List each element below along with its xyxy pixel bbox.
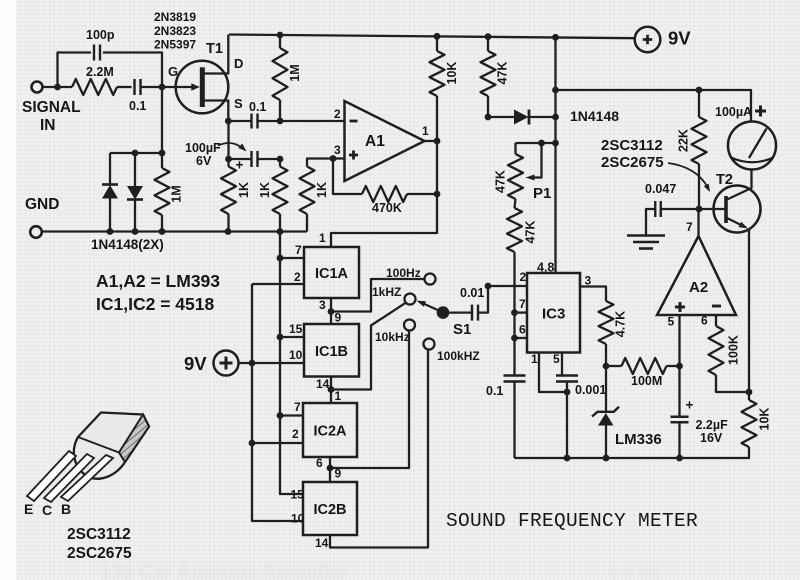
wire A2 pin5 bbox=[678, 315, 680, 366]
svg-text:1: 1 bbox=[531, 352, 538, 366]
svg-text:139 Car Antenna Amplifier: 139 Car Antenna Amplifier bbox=[100, 561, 349, 580]
svg-text:1K: 1K bbox=[237, 182, 251, 198]
wire 9V top rail bbox=[229, 35, 635, 39]
node S1k bbox=[225, 118, 232, 125]
svg-text:2.2M: 2.2M bbox=[86, 65, 114, 79]
T1 drain wire bbox=[205, 35, 229, 74]
resistor 10K bbox=[436, 36, 438, 51]
node diode anode bbox=[485, 114, 492, 121]
IC IC3 bbox=[527, 273, 580, 353]
wire enable vertical bbox=[252, 284, 303, 521]
svg-text:2SC2675: 2SC2675 bbox=[601, 154, 664, 171]
svg-text:0.01: 0.01 bbox=[460, 286, 484, 300]
wire A1 pin2 bbox=[280, 120, 345, 122]
svg-text:0-0 6-0: 0-0 6-0 bbox=[610, 565, 661, 580]
svg-text:10kHz: 10kHz bbox=[375, 330, 410, 344]
terminal 100kHZ bbox=[424, 339, 435, 350]
node emitter 10K bbox=[746, 389, 753, 396]
svg-text:9V: 9V bbox=[184, 353, 207, 374]
node IC3 pin7 bbox=[511, 309, 518, 316]
svg-text:0.047: 0.047 bbox=[645, 182, 676, 196]
meter needle bbox=[749, 129, 767, 159]
capacitor 100uF 6V bbox=[250, 151, 252, 167]
wire 10kHz bbox=[330, 331, 409, 469]
svg-text:14: 14 bbox=[316, 377, 330, 391]
svg-text:2N5397: 2N5397 bbox=[154, 38, 196, 52]
IC IC2B bbox=[303, 482, 357, 535]
svg-text:1N4148(2X): 1N4148(2X) bbox=[91, 237, 164, 252]
wire S down bbox=[227, 121, 229, 167]
battery 9V left bbox=[214, 351, 239, 376]
T1 gate wire bbox=[162, 86, 193, 88]
svg-text:+: + bbox=[686, 398, 694, 413]
T1 source wire bbox=[205, 101, 229, 122]
node gnd 1K b bbox=[277, 228, 284, 235]
meter 100uA bbox=[728, 122, 776, 170]
wire IC3 pin1 bbox=[539, 353, 564, 393]
wire C1 to node G bbox=[141, 86, 163, 88]
wire A1 out down bbox=[331, 141, 437, 247]
wire 2.2M to C1 bbox=[117, 86, 132, 88]
svg-text:7: 7 bbox=[519, 297, 526, 311]
node 22K top bbox=[696, 87, 703, 94]
node IC3 pin2 bbox=[485, 283, 492, 290]
wire IC3 pin6 bbox=[515, 337, 528, 339]
svg-text:IC1B: IC1B bbox=[315, 344, 348, 360]
node rail right bbox=[552, 34, 559, 41]
node A1 out bbox=[434, 138, 441, 145]
resistor 1K a bbox=[221, 167, 236, 215]
wire 0.01 up bbox=[478, 286, 488, 313]
svg-text:2SC3112: 2SC3112 bbox=[67, 526, 131, 543]
resistor 1K c bbox=[306, 214, 308, 232]
diode D3 1N4148 bbox=[488, 116, 514, 118]
node 100uF right bbox=[277, 156, 284, 163]
ground symbol bbox=[646, 209, 655, 236]
svg-text:14: 14 bbox=[315, 536, 329, 550]
node IC1B pin14 bbox=[328, 386, 335, 393]
node gnd 0.001 bbox=[564, 455, 571, 462]
node A2 pin5 100M bbox=[676, 363, 683, 370]
svg-text:3: 3 bbox=[319, 298, 326, 312]
svg-text:1: 1 bbox=[335, 389, 342, 403]
node A1 pin3 bbox=[330, 155, 337, 162]
resistor 22K bbox=[698, 90, 700, 117]
node junction input bbox=[54, 84, 61, 91]
node G branch bbox=[159, 150, 166, 157]
node IC2A pin6 bbox=[327, 465, 334, 472]
wire IC3 pin2 bbox=[488, 285, 527, 287]
terminal 10kHz bbox=[404, 320, 415, 331]
wire IC3 pin5 bbox=[561, 353, 563, 376]
svg-text:2: 2 bbox=[292, 427, 299, 441]
node 470K right bbox=[434, 191, 441, 198]
resistor 1M drain bbox=[277, 32, 284, 39]
svg-text:1K: 1K bbox=[315, 182, 329, 198]
svg-text:100p: 100p bbox=[86, 28, 115, 42]
svg-text:A1: A1 bbox=[365, 133, 385, 150]
svg-text:7: 7 bbox=[686, 220, 693, 234]
resistor 100M bbox=[606, 365, 622, 367]
node 0.001 bottom bbox=[564, 389, 571, 396]
wire IC3 pin7 bbox=[515, 311, 528, 313]
svg-text:E: E bbox=[24, 501, 33, 517]
resistor 2.2M bbox=[72, 79, 117, 95]
svg-text:D: D bbox=[234, 56, 243, 71]
node gnd LM336 bbox=[603, 455, 610, 462]
svg-text:T1: T1 bbox=[206, 41, 223, 57]
svg-text:6V: 6V bbox=[196, 154, 212, 168]
node IC1A pin7 bbox=[277, 255, 284, 262]
node gnd 1K a bbox=[225, 228, 232, 235]
svg-text:1: 1 bbox=[319, 231, 326, 245]
arrow 100uF callout bbox=[218, 143, 242, 148]
resistor 470K feedback bbox=[333, 159, 362, 195]
svg-text:1K: 1K bbox=[258, 182, 272, 198]
resistor 1M input bbox=[161, 153, 163, 168]
wire IC1B pin14 to IC2A pin1 bbox=[330, 377, 332, 404]
svg-text:10: 10 bbox=[289, 348, 303, 362]
capacitor 0.047 bbox=[654, 201, 656, 217]
svg-text:2.2µF: 2.2µF bbox=[696, 418, 729, 432]
wire IC1A pin7 bbox=[280, 257, 304, 259]
svg-text:P1: P1 bbox=[533, 185, 551, 202]
wire IC1B pin10 9V bbox=[239, 362, 305, 364]
svg-text:2SC2675: 2SC2675 bbox=[67, 545, 132, 562]
svg-text:5: 5 bbox=[553, 352, 560, 366]
zener LM336 bbox=[605, 366, 607, 412]
svg-text:10: 10 bbox=[291, 512, 305, 526]
wire 0.1 down bbox=[513, 382, 515, 459]
svg-text:2: 2 bbox=[294, 270, 301, 284]
svg-text:6: 6 bbox=[519, 323, 526, 337]
capacitor 100p bbox=[93, 45, 95, 61]
svg-text:IC2B: IC2B bbox=[313, 502, 346, 518]
svg-text:1kHZ: 1kHZ bbox=[372, 285, 401, 299]
TO-92 leads bbox=[27, 451, 76, 501]
capacitor 0.1 input bbox=[133, 79, 135, 95]
wire s cap bbox=[229, 120, 252, 122]
svg-text:1M: 1M bbox=[288, 64, 302, 81]
svg-text:100µF: 100µF bbox=[185, 141, 221, 155]
wire 100uF leads bbox=[229, 158, 252, 160]
capacitor 0.001 bbox=[556, 374, 578, 376]
capacitor 0.1 timing bbox=[504, 374, 526, 376]
resistor 1K b bbox=[279, 159, 281, 167]
terminal GND bbox=[30, 226, 42, 238]
capacitor 2.2uF 16V bbox=[678, 366, 680, 417]
svg-text:B: B bbox=[61, 501, 71, 517]
svg-text:0.1: 0.1 bbox=[486, 384, 503, 398]
wire A2 out bbox=[697, 209, 699, 236]
svg-text:15: 15 bbox=[291, 488, 305, 502]
battery 9V right bbox=[635, 27, 661, 53]
node IC2A pin7 bbox=[277, 412, 284, 419]
svg-text:47K: 47K bbox=[524, 221, 538, 244]
wire 47K down bbox=[513, 252, 515, 376]
node rail 10K bbox=[434, 33, 441, 40]
svg-text:C: C bbox=[42, 502, 52, 518]
svg-text:IC1A: IC1A bbox=[315, 266, 349, 282]
svg-text:3: 3 bbox=[585, 274, 592, 288]
wire 100p branch bbox=[58, 53, 92, 88]
resistor 4.7K bbox=[599, 301, 614, 344]
wire branch to meter bbox=[556, 90, 752, 122]
node T2 base bbox=[696, 206, 703, 213]
node gnd d1 bbox=[107, 228, 114, 235]
node diode2 top bbox=[132, 150, 139, 157]
svg-text:9: 9 bbox=[335, 467, 342, 481]
svg-text:IC3: IC3 bbox=[542, 306, 565, 323]
svg-text:1M: 1M bbox=[170, 185, 184, 202]
svg-text:100µA: 100µA bbox=[715, 105, 752, 119]
wire A1 pin3 bbox=[333, 157, 345, 159]
node G bbox=[159, 84, 166, 91]
wire IC3 pin3 bbox=[580, 287, 606, 302]
svg-text:IC1,IC2 = 4518: IC1,IC2 = 4518 bbox=[96, 294, 214, 314]
svg-text:7: 7 bbox=[294, 400, 301, 414]
node P1 supply bbox=[552, 140, 559, 147]
transistor T2 bbox=[714, 186, 761, 233]
terminal 1kHZ bbox=[405, 294, 416, 305]
svg-text:2: 2 bbox=[520, 270, 527, 284]
node gnd 1M bbox=[159, 228, 166, 235]
svg-text:0.1: 0.1 bbox=[129, 99, 146, 113]
svg-text:GND: GND bbox=[25, 196, 59, 213]
node IC1B pin15 bbox=[277, 334, 284, 341]
svg-text:22K: 22K bbox=[677, 129, 691, 152]
IC IC1B bbox=[304, 324, 359, 377]
wire IC1A pin3 to IC1B pin9 bbox=[330, 298, 332, 324]
op-amp A2 bbox=[657, 236, 736, 315]
node diode cathode bbox=[552, 114, 559, 121]
svg-text:IC2A: IC2A bbox=[313, 424, 347, 440]
node IC1A pin3 bbox=[328, 308, 335, 315]
terminal SIGNAL IN bbox=[32, 82, 43, 93]
svg-text:A1,A2 = LM393: A1,A2 = LM393 bbox=[96, 271, 220, 291]
svg-text:6: 6 bbox=[316, 456, 323, 470]
node gnd d2 bbox=[132, 228, 139, 235]
svg-text:100kHZ: 100kHZ bbox=[437, 349, 480, 363]
svg-text:470K: 470K bbox=[372, 201, 402, 215]
node P1 wiper tie bbox=[538, 140, 545, 147]
potentiometer P1 47K bbox=[508, 154, 523, 199]
wire diode branch top bbox=[110, 152, 162, 154]
wire 100Hz bbox=[331, 279, 425, 312]
svg-text:5: 5 bbox=[668, 315, 675, 329]
node rail 47K bbox=[485, 33, 492, 40]
svg-text:1: 1 bbox=[422, 124, 429, 138]
wire IC1A pin2 bbox=[252, 283, 304, 285]
wire IC1B pin15 bbox=[280, 336, 304, 338]
svg-text:2N3823: 2N3823 bbox=[154, 24, 196, 38]
T2 emitter bbox=[726, 218, 744, 227]
svg-text:4.7K: 4.7K bbox=[614, 311, 628, 337]
capacitor 0.1 source bbox=[250, 114, 252, 129]
node gnd 2.2uF bbox=[676, 455, 683, 462]
svg-text:LM336: LM336 bbox=[615, 431, 662, 448]
svg-text:SIGNAL: SIGNAL bbox=[22, 99, 81, 116]
svg-text:10K: 10K bbox=[758, 408, 772, 431]
svg-text:9V: 9V bbox=[668, 28, 691, 49]
wire 555 supply vertical bbox=[554, 37, 556, 273]
svg-text:0.1: 0.1 bbox=[249, 100, 266, 114]
svg-text:IN: IN bbox=[40, 117, 56, 134]
svg-text:A2: A2 bbox=[689, 279, 708, 296]
wire IC2A pin7 bbox=[280, 414, 303, 416]
resistor 100K bbox=[715, 315, 717, 326]
wire 100kHZ bbox=[330, 350, 428, 548]
wire IC2A pin6 to IC2B pin9 bbox=[329, 457, 331, 482]
svg-text:4.8: 4.8 bbox=[537, 261, 554, 275]
op-amp A1 bbox=[345, 101, 425, 181]
svg-text:47K: 47K bbox=[494, 170, 508, 193]
svg-text:7: 7 bbox=[295, 243, 302, 257]
svg-text:T2: T2 bbox=[716, 172, 733, 188]
node IC2A pin2 bbox=[249, 440, 256, 447]
svg-text:S1: S1 bbox=[453, 321, 471, 338]
node 4.7K bottom bbox=[603, 363, 610, 370]
wire 2.2uF down bbox=[678, 423, 680, 459]
wire GND rail bbox=[42, 230, 307, 232]
resistor 47K lower bbox=[515, 199, 516, 208]
svg-text:3: 3 bbox=[334, 143, 341, 157]
node 9V junction bbox=[249, 360, 256, 367]
node IC3 pin6 bbox=[511, 335, 518, 342]
svg-text:9: 9 bbox=[335, 311, 342, 325]
svg-text:100M: 100M bbox=[631, 374, 662, 388]
svg-text:2: 2 bbox=[334, 107, 341, 121]
svg-text:SOUND FREQUENCY METER: SOUND FREQUENCY METER bbox=[446, 510, 698, 532]
capacitor 0.01 bbox=[471, 305, 473, 321]
svg-text:0.001: 0.001 bbox=[575, 383, 606, 397]
node pin2 wire bbox=[277, 118, 284, 125]
svg-text:16V: 16V bbox=[700, 431, 723, 445]
diode D2 1N4148 bbox=[127, 186, 143, 200]
wire P1 top bbox=[516, 142, 556, 144]
svg-text:2SC3112: 2SC3112 bbox=[601, 137, 663, 154]
switch S1 bbox=[437, 306, 450, 319]
IC IC2A bbox=[303, 403, 357, 457]
svg-text:6: 6 bbox=[701, 314, 708, 328]
IC IC1A bbox=[304, 247, 359, 298]
svg-text:47K: 47K bbox=[496, 62, 510, 85]
wire IC2A pin2 bbox=[252, 442, 303, 444]
node 100uF left bbox=[225, 156, 232, 163]
wire S1 to cap bbox=[449, 311, 471, 313]
node branch T2 bbox=[552, 87, 559, 94]
resistor 47K pullup bbox=[487, 37, 489, 51]
resistor 10K meter bbox=[742, 400, 757, 447]
svg-text:1N4148: 1N4148 bbox=[570, 108, 619, 124]
diode D1 1N4148 bbox=[102, 185, 118, 199]
terminal 100Hz bbox=[425, 274, 436, 285]
svg-text:2N3819: 2N3819 bbox=[154, 10, 196, 24]
wire reset vertical bbox=[280, 232, 303, 495]
wire 1kHZ bbox=[331, 303, 406, 390]
TO-92 package body bbox=[74, 413, 149, 479]
T2 collector bbox=[726, 170, 752, 201]
svg-text:100K: 100K bbox=[727, 335, 741, 365]
svg-text:S: S bbox=[234, 96, 243, 111]
wire A1 out bbox=[425, 140, 438, 142]
svg-text:10K: 10K bbox=[445, 62, 459, 85]
wire input to node bbox=[43, 86, 73, 88]
svg-text:15: 15 bbox=[289, 322, 303, 336]
transistor T1 JFET bbox=[176, 61, 229, 114]
